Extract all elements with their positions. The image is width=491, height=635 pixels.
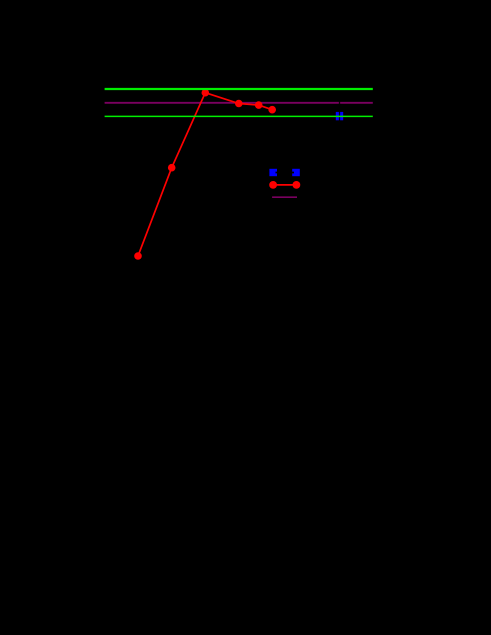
legend red line	[273, 184, 296, 186]
magenta threshold line	[105, 102, 373, 104]
legend magenta line	[272, 196, 297, 198]
green lower line	[105, 115, 373, 117]
red data markers	[134, 89, 276, 260]
red data line	[138, 93, 272, 256]
black error bar over blue square and magenta line	[339, 100, 341, 131]
legend black connector over squares	[276, 172, 295, 174]
legend red circles	[269, 181, 277, 189]
blue square data point	[336, 112, 343, 120]
legend blue squares	[269, 169, 277, 176]
green top line	[105, 88, 373, 90]
